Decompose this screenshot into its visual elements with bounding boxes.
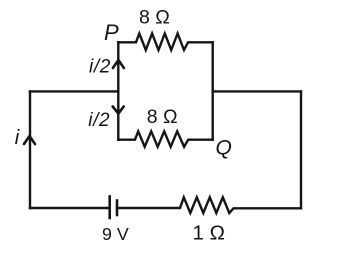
svg-text:1 Ω: 1 Ω: [193, 222, 225, 245]
svg-text:i/2: i/2: [89, 57, 111, 78]
svg-text:8 Ω: 8 Ω: [147, 106, 178, 128]
svg-text:i: i: [15, 127, 20, 149]
svg-text:P: P: [104, 20, 119, 45]
svg-text:Q: Q: [216, 137, 232, 160]
svg-text:i/2: i/2: [88, 110, 110, 131]
svg-text:8 Ω: 8 Ω: [139, 6, 170, 28]
svg-text:9 V: 9 V: [102, 224, 129, 244]
